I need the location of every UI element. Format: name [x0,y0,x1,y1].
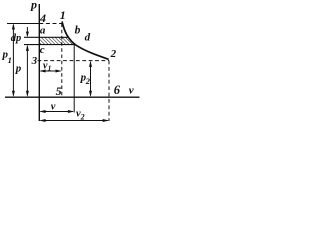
p2 dimension line [90,62,92,96]
extension tick at p1 level [7,23,39,25]
svg-text:b: b [75,25,81,37]
p1 dimension line [12,25,14,96]
dashed vertical below point 2 [108,61,110,121]
svg-text:5: 5 [56,84,62,98]
dp upper arrow [26,27,28,36]
svg-text:4: 4 [39,11,46,25]
svg-text:p: p [15,63,22,75]
dashed horizontal at p2 level [38,60,110,62]
svg-text:1: 1 [48,64,52,73]
svg-text:v: v [51,101,56,112]
v1 dimension line [41,70,61,72]
svg-text:c: c [40,44,45,56]
p dimension line [26,46,28,96]
v dimension line (below axis) [41,111,74,113]
svg-text:dp: dp [11,33,21,44]
v-axis [5,96,140,98]
svg-text:1: 1 [8,55,12,65]
svg-text:3: 3 [31,55,38,67]
svg-text:1: 1 [60,8,66,22]
line c [24,44,74,46]
svg-text:2: 2 [85,76,91,86]
process curve 1-2 [62,22,109,60]
hatched strip a-b-d-c [39,37,74,44]
slice vertical line below d [73,45,75,113]
svg-text:v: v [129,85,134,97]
svg-text:d: d [85,32,91,44]
svg-text:2: 2 [110,48,117,60]
svg-text:p: p [30,0,37,12]
v2 dimension line (below axis) [41,120,108,122]
p-axis [38,4,40,121]
svg-text:a: a [40,25,46,37]
svg-text:2: 2 [80,112,85,121]
line a [24,36,68,38]
dashed vertical below point 1 [61,24,63,98]
dashed line 4-1 [39,23,62,25]
background [0,0,143,134]
svg-text:6: 6 [114,83,121,97]
